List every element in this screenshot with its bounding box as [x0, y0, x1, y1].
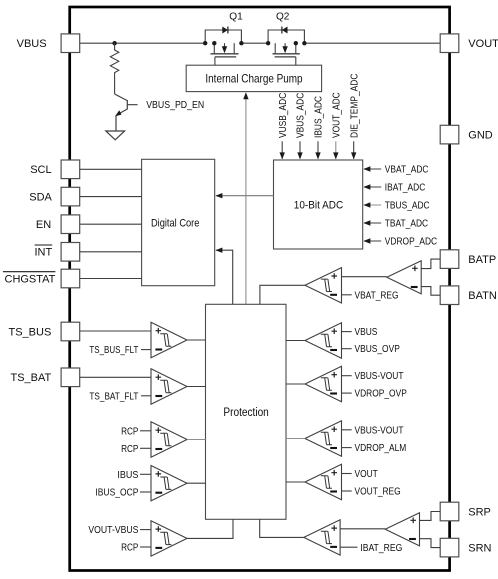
svg-text:VBUS: VBUS: [355, 327, 378, 338]
pin BATP: [440, 250, 459, 269]
comparator U_VBATREG: [305, 268, 342, 303]
comparator U_VOUTVBUS: [151, 521, 187, 556]
pin SDA: [61, 187, 80, 206]
wire CHGSTAT to Digital Core: [80, 278, 142, 280]
comparator RCP input wires: [140, 430, 151, 432]
svg-text:IBUS: IBUS: [117, 470, 138, 481]
transistor Q1 mosfet: [213, 43, 215, 53]
wire VBAT_ADC into ADC: [364, 168, 381, 170]
wire amp to comp plus: [342, 276, 387, 278]
comparator U_VOUT_REG: [305, 464, 342, 499]
svg-text:10-Bit ADC: 10-Bit ADC: [294, 200, 343, 212]
wire VDROP_OVP comp out: [286, 383, 305, 385]
wire Protection to Digital Core: [216, 250, 233, 304]
wire VBUS_OVP comp out: [286, 340, 305, 342]
svg-text:VBUS-VOUT: VBUS-VOUT: [355, 371, 404, 382]
wire VDROP_ALM comp out: [286, 438, 305, 440]
svg-text:INT: INT: [35, 247, 53, 259]
svg-text:IBUS_OCP: IBUS_OCP: [95, 488, 138, 499]
pin BATN: [440, 286, 459, 305]
svg-text:VBAT_ADC: VBAT_ADC: [385, 165, 429, 176]
wire TS_BUS comp out: [187, 339, 206, 341]
wire VOUT-VBUS comp out: [187, 519, 233, 538]
block 10-Bit ADC: [274, 160, 363, 249]
wire EN to Digital Core: [80, 223, 142, 225]
svg-text:TBUS_ADC: TBUS_ADC: [385, 201, 430, 212]
svg-text:TBAT_ADC: TBAT_ADC: [385, 219, 428, 230]
wire INT to Digital Core: [80, 251, 142, 253]
svg-text:BATN: BATN: [468, 290, 497, 302]
overline CHGSTAT: [3, 271, 56, 273]
svg-text:SRN: SRN: [468, 543, 491, 555]
pin SRN: [440, 538, 459, 557]
svg-text:VDROP_OVP: VDROP_OVP: [355, 389, 408, 400]
comparator U_VDROP_OVP: [305, 366, 342, 401]
svg-text:BATP: BATP: [468, 254, 496, 266]
wire VDROP_ADC into ADC: [364, 240, 381, 242]
svg-text:SDA: SDA: [29, 192, 52, 204]
wire SCL to Digital Core: [80, 168, 142, 170]
wire VBUS_OVP stub: [342, 348, 352, 350]
wire IBAT_REG stub: [340, 546, 357, 548]
comparator TS_BAT input wires: [80, 376, 151, 378]
node Q1 junctions: [203, 41, 207, 45]
svg-text:EN: EN: [36, 219, 51, 231]
wire IBAT comp out: [260, 519, 304, 538]
comparator U_IBUS: [151, 466, 187, 501]
svg-text:Q1: Q1: [229, 11, 243, 23]
pin SRP: [440, 502, 459, 521]
pin VOUT: [440, 34, 459, 53]
wire BATP to amp: [421, 259, 440, 269]
wire charge pump enable: [245, 99, 247, 304]
svg-text:IBUS_ADC: IBUS_ADC: [314, 96, 325, 138]
block Digital Core: [142, 159, 215, 285]
svg-text:Internal Charge Pump: Internal Charge Pump: [205, 72, 302, 86]
wire VBAT comp out: [260, 285, 305, 304]
svg-text:VBUS_OVP: VBUS_OVP: [355, 344, 401, 355]
block Internal Charge Pump: [186, 65, 321, 91]
block Protection: [206, 304, 287, 519]
wire VBUS-VOUT stub: [342, 375, 352, 377]
overline INT: [35, 244, 53, 246]
svg-text:VOUT: VOUT: [355, 469, 378, 480]
wire IBUS_ADC into ADC: [317, 141, 319, 158]
svg-text:VOUT: VOUT: [468, 38, 498, 50]
wire VUSB_ADC into ADC: [281, 141, 283, 158]
comparator U_RCP: [151, 422, 187, 457]
svg-text:IBAT_ADC: IBAT_ADC: [385, 183, 426, 194]
wire VBUS stub: [342, 331, 352, 333]
op-amp U_IBAT: [385, 513, 419, 546]
svg-text:VBAT_REG: VBAT_REG: [355, 290, 399, 301]
comparator VOUT-VBUS input wires: [140, 529, 151, 531]
svg-text:RCP: RCP: [121, 426, 139, 437]
wire SRN to amp: [420, 539, 441, 548]
wire SDA to Digital Core: [80, 196, 142, 198]
pin TS_BUS: [61, 322, 80, 341]
transistor Q2 mosfet: [274, 43, 276, 53]
svg-text:IBAT_REG: IBAT_REG: [360, 543, 402, 554]
wire VBAT_REG stub: [342, 294, 352, 296]
svg-text:TS_BUS_FLT: TS_BUS_FLT: [89, 345, 138, 356]
wire TBAT_ADC into ADC: [364, 222, 381, 224]
comparator U_VBUS_OVP: [305, 323, 342, 358]
svg-text:Q2: Q2: [276, 11, 290, 23]
svg-text:VBUS-VOUT: VBUS-VOUT: [355, 425, 404, 436]
ground: [106, 131, 125, 140]
svg-text:VOUT_ADC: VOUT_ADC: [331, 92, 342, 138]
wire VOUT stub: [342, 473, 352, 475]
wire BATN to amp: [421, 287, 440, 296]
svg-text:RCP: RCP: [121, 543, 139, 554]
pin EN: [61, 215, 80, 234]
svg-text:Protection: Protection: [223, 407, 268, 419]
svg-text:Digital Core: Digital Core: [151, 217, 200, 229]
wire VOUT_REG stub: [342, 490, 352, 492]
svg-text:GND: GND: [468, 130, 492, 142]
wire VDROP_ALM stub: [342, 447, 352, 449]
node Q2 junctions: [266, 41, 270, 45]
svg-text:SCL: SCL: [30, 164, 51, 176]
comparator U_TSBUS: [151, 322, 187, 357]
wire TS_BAT comp out: [187, 386, 206, 388]
transistor Q2 body diode: [268, 30, 304, 43]
wire VBUS rail: [79, 42, 205, 44]
svg-text:RCP: RCP: [121, 444, 139, 455]
svg-text:VUSB_ADC: VUSB_ADC: [278, 93, 289, 138]
transistor VBUS_PD_EN: [115, 94, 138, 131]
transistor Q1 body diode: [205, 30, 241, 43]
op-amp U_VBAT: [387, 261, 421, 294]
pin CHGSTAT: [61, 269, 80, 288]
wire VBUS_ADC into ADC: [299, 141, 301, 158]
wire TBUS_ADC into ADC: [364, 204, 381, 206]
svg-text:VOUT_REG: VOUT_REG: [355, 487, 401, 498]
svg-text:SRP: SRP: [468, 506, 491, 518]
svg-text:VBUS_PD_EN: VBUS_PD_EN: [146, 100, 204, 111]
wire SRP to amp: [420, 512, 441, 521]
outer border frame: [70, 7, 450, 571]
wire amp to IBAT comp plus: [340, 528, 385, 530]
resistor pulldown: [110, 43, 118, 94]
node resistor tap: [112, 41, 116, 45]
pin GND: [440, 125, 459, 144]
svg-text:VDROP_ALM: VDROP_ALM: [355, 443, 407, 454]
wire DIE_TEMP_ADC into ADC: [353, 141, 355, 158]
wire ADC to Digital Core: [216, 195, 273, 197]
comparator U_IBATREG: [304, 520, 340, 555]
wire VBUS-VOUT stub: [342, 429, 352, 431]
wire VDROP_OVP stub: [342, 392, 352, 394]
wire IBUS comp out: [187, 482, 206, 484]
wire RCP comp out: [187, 439, 206, 441]
comparator U_TSBAT: [151, 369, 187, 404]
svg-text:VBUS_ADC: VBUS_ADC: [296, 93, 307, 138]
comparator U_VDROP_ALM: [305, 421, 342, 456]
wire IBAT_ADC into ADC: [364, 186, 381, 188]
comparator TS_BUS input wires: [80, 330, 151, 332]
svg-text:CHGSTAT: CHGSTAT: [5, 273, 56, 285]
svg-text:TS_BAT: TS_BAT: [11, 372, 52, 384]
pin VBUS: [61, 34, 80, 53]
svg-text:DIE_TEMP_ADC: DIE_TEMP_ADC: [349, 74, 360, 138]
pin SCL: [61, 160, 80, 179]
pin TS_BAT: [61, 368, 80, 387]
svg-text:VDROP_ADC: VDROP_ADC: [385, 237, 437, 248]
pin INT: [61, 243, 80, 262]
wire VOUT_ADC into ADC: [335, 141, 337, 158]
svg-text:VBUS: VBUS: [17, 38, 47, 50]
svg-text:TS_BUS: TS_BUS: [9, 326, 52, 338]
svg-text:TS_BAT_FLT: TS_BAT_FLT: [89, 391, 138, 402]
comparator IBUS input wires: [140, 473, 151, 475]
wire VOUT_REG comp out: [286, 481, 305, 483]
svg-text:VOUT-VBUS: VOUT-VBUS: [88, 525, 138, 536]
